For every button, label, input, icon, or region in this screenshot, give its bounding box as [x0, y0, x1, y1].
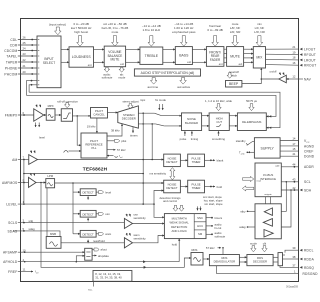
wire afhold branch into sample hold: [76, 256, 84, 262]
wire tap vertical to level line: [142, 113, 144, 204]
svg-text:usn: usn: [105, 212, 110, 216]
svg-text:INTERFACE: INTERFACE: [260, 177, 276, 181]
svg-text:LFOUT: LFOUT: [304, 48, 316, 52]
svg-text:39: 39: [292, 246, 296, 250]
svg-text:RROUT: RROUT: [304, 64, 316, 68]
level arrows below fm amp: [35, 123, 37, 128]
wire bass to fader R: [192, 61, 206, 63]
svg-text:25: 25: [23, 41, 27, 45]
feedback loop into input select upper: [27, 81, 38, 96]
svg-text:RFOUT: RFOUT: [304, 53, 316, 57]
svg-text:SDA: SDA: [304, 188, 312, 192]
logic output timers: [206, 217, 213, 219]
rolloff correction box: [61, 109, 72, 122]
svg-text:wam: wam: [105, 232, 112, 236]
svg-text:11: 11: [23, 268, 26, 272]
noise detect 2 box: [164, 180, 181, 193]
svg-text:PHCOM: PHCOM: [4, 72, 17, 76]
svg-text:hold: hold: [217, 185, 223, 189]
svg-text:DECODER: DECODER: [122, 117, 136, 121]
svg-text:on/off: on/off: [270, 70, 277, 74]
pin RFOUT: [292, 50, 316, 57]
svg-text:outgate: outgate: [264, 193, 272, 196]
wire rds filter to demod: [203, 258, 209, 260]
wire volume to treble L: [126, 48, 140, 50]
svg-text:ADDR: ADDR: [304, 165, 314, 169]
wire test into logic bottom: [178, 239, 180, 262]
svg-text:CDR: CDR: [10, 43, 18, 47]
hollow arrow into rolloff box: [65, 103, 70, 108]
am input amp: [29, 155, 38, 165]
svg-text:1, 1.2 to 10 kHz, wide: 1, 1.2 to 10 kHz, wide: [205, 99, 232, 103]
svg-text:38 kHz: 38 kHz: [111, 128, 120, 132]
wire input select to loudness L: [61, 48, 69, 50]
pin AM: [12, 156, 29, 162]
annotation below noise blanker: [184, 131, 186, 136]
pin RDSGND: [217, 266, 319, 276]
loudness block: [69, 47, 94, 67]
detect 1 box: [80, 189, 96, 196]
nc label: [93, 281, 95, 286]
hollow arrow into loudness: [77, 36, 84, 47]
svg-text:ms sensitivity: ms sensitivity: [149, 172, 166, 176]
svg-text:LROUT: LROUT: [304, 58, 316, 62]
svg-text:TREBLE: TREBLE: [145, 54, 159, 58]
wire 38 kHz pll to stereo decoder: [107, 124, 122, 136]
svg-text:SUPPLY: SUPPLY: [261, 146, 275, 150]
svg-text:HCC: HCC: [197, 224, 203, 228]
wire timers below stereo decoder: [132, 127, 134, 133]
svg-text:standby: standby: [236, 139, 246, 143]
hollow arrow into mix: [256, 36, 263, 47]
wire input select to loudness R: [61, 61, 69, 63]
pin TAPEL: [6, 52, 37, 58]
svg-text:57 kHz: 57 kHz: [117, 148, 126, 152]
wire fm amp to mpx filter: [44, 114, 47, 116]
annotation below volume: softmute: [104, 67, 109, 72]
pin FMMPX: [5, 111, 34, 117]
svg-text:22: 22: [23, 58, 27, 62]
svg-text:MUTE: MUTE: [110, 58, 119, 62]
sensitivity double arrow: [170, 168, 175, 180]
node am junction 2: [151, 159, 153, 161]
wires high cut to de-emphasis: [229, 115, 237, 117]
pin SCL: [281, 178, 311, 185]
node mpx junction: [76, 115, 78, 117]
svg-text:FREF: FREF: [8, 270, 17, 274]
svg-text:RDDA: RDDA: [304, 257, 315, 261]
mute block: [227, 47, 244, 67]
svg-text:sm start, slope: sm start, slope: [204, 202, 223, 206]
svg-text:pilot: pilot: [121, 139, 126, 143]
hollow arrow into volume: [112, 36, 119, 47]
svg-text:AFHOLD: AFHOLD: [3, 260, 18, 264]
svg-text:pulse: pulse: [180, 137, 187, 141]
af sample hold box: [85, 248, 92, 260]
svg-text:SDAG: SDAG: [7, 229, 17, 233]
svg-text:LEVEL: LEVEL: [6, 203, 17, 207]
sensitivity arrows comparator 2: [125, 233, 128, 236]
svg-text:SM: SM: [198, 232, 203, 236]
svg-text:CDL: CDL: [10, 38, 17, 42]
wires fader to mute 4 lines: [224, 48, 227, 50]
pin SDAG: [7, 227, 35, 233]
svg-text:stereo adjust: stereo adjust: [122, 99, 138, 103]
svg-text:CUT: CUT: [216, 120, 222, 124]
gain arrows above am amp: [30, 150, 33, 153]
pin CDR: [10, 41, 37, 47]
svg-text:AGND: AGND: [304, 144, 315, 148]
svg-text:hi-cut: hi-cut: [215, 226, 222, 230]
pll input fref: [107, 155, 114, 157]
svg-text:DETECT: DETECT: [82, 191, 93, 195]
svg-text:ext: ext: [88, 63, 92, 67]
node am junction 1: [142, 159, 144, 161]
detect 1 output level: [96, 191, 98, 193]
hollow arrow into mute: [232, 36, 239, 47]
node level junctions: [23, 203, 25, 205]
svg-text:BLANKER: BLANKER: [185, 121, 198, 125]
annotation below volume: ab mode: [119, 67, 124, 72]
supply block: [254, 138, 280, 158]
wire mpx tap to rds filter: [41, 183, 191, 268]
feedback loop into input select lower: [29, 85, 37, 92]
svg-text:BEEP: BEEP: [229, 82, 239, 86]
wire nd2 to pt2: [180, 186, 187, 188]
svg-text:19 kHz: 19 kHz: [87, 125, 96, 129]
hollow arrow into de-emphasis: [249, 104, 254, 111]
pin FREF: [8, 268, 39, 275]
svg-text:SCLS: SCLS: [8, 221, 18, 225]
control arrows onto switch: [158, 104, 160, 110]
svg-text:MUTE: MUTE: [230, 55, 240, 59]
wire level branch down into multipath logic: [154, 204, 164, 217]
amfmos amp: [29, 177, 37, 187]
pin DGND: [280, 152, 315, 159]
svg-text:level: level: [39, 136, 45, 140]
svg-text:aut active: aut active: [177, 85, 190, 89]
svg-text:RDS: RDS: [192, 248, 198, 252]
svg-text:read/hold: read/hold: [93, 239, 105, 243]
switch blade upper: [154, 113, 161, 116]
wire bass to fader L: [192, 48, 206, 50]
wire lpm down to msb filter: [46, 188, 48, 237]
test amp box: [255, 204, 281, 239]
svg-text:addr: addr: [275, 165, 280, 168]
svg-text:afupdate: afupdate: [98, 254, 109, 258]
fm input amp: [34, 109, 44, 122]
svg-text:57 kHz: 57 kHz: [206, 246, 215, 250]
svg-text:44: 44: [292, 163, 296, 167]
svg-text:RDCL: RDCL: [304, 249, 314, 253]
wire nav amp to mix: [261, 68, 279, 79]
wire into detect 2: [73, 213, 80, 215]
svg-text:DEMODULATOR: DEMODULATOR: [214, 260, 236, 264]
wire beep to mix: [242, 79, 261, 84]
pt2 output hold: [205, 186, 216, 188]
svg-text:TAPEL: TAPEL: [6, 54, 17, 58]
svg-text:15: 15: [292, 147, 296, 151]
wire lpm to noise detect 2: [55, 182, 164, 184]
comparator 1: [124, 218, 132, 228]
node taps on decoder outputs: [142, 112, 144, 114]
svg-text:sdag: sdag: [29, 227, 36, 231]
rds demodulator box: [209, 255, 239, 266]
svg-text:L/R, NR: L/R, NR: [230, 30, 242, 34]
svg-text:AMFMOS: AMFMOS: [2, 181, 18, 185]
svg-text:hold: hold: [172, 242, 178, 246]
svg-text:21: 21: [23, 64, 27, 68]
svg-text:19: 19: [292, 50, 296, 54]
pin RDDA: [283, 255, 315, 262]
mpx filter box: [46, 104, 55, 120]
svg-text:RDSGND: RDSGND: [303, 272, 319, 276]
svg-text:CANCEL: CANCEL: [93, 113, 105, 117]
svg-text:20: 20: [23, 70, 27, 74]
wire scls to comparator 1: [18, 222, 125, 224]
svg-text:AM: AM: [12, 158, 17, 162]
i2c bus interface box: [255, 163, 281, 197]
svg-text:41: 41: [292, 152, 296, 156]
svg-text:aut time: aut time: [147, 85, 158, 89]
svg-text:38: 38: [292, 255, 296, 259]
svg-text:mode: mode: [250, 241, 257, 245]
svg-text:SELECT: SELECT: [43, 61, 55, 65]
logic output hicut: [206, 225, 213, 227]
svg-text:ext: ext: [187, 60, 191, 64]
msb filter box: [46, 232, 61, 248]
wire stby into test box: [247, 210, 255, 212]
svg-text:softmute: softmute: [102, 76, 113, 80]
wire diag into test box: [247, 226, 255, 228]
svg-text:n.c.: n.c.: [88, 288, 93, 292]
svg-text:DECODER: DECODER: [253, 260, 267, 264]
wire sdag to comparator 2: [13, 231, 124, 243]
svg-text:and control: and control: [163, 199, 177, 203]
hollow arrows into logic: [173, 205, 178, 211]
svg-text:clk: clk: [263, 241, 267, 245]
pin LROUT: [292, 56, 316, 63]
svg-text:stby: stby: [240, 209, 246, 213]
svg-text:DETECT: DETECT: [166, 186, 177, 190]
svg-text:23: 23: [23, 52, 27, 56]
annotation readthold: [87, 240, 89, 243]
rds filter box: [191, 248, 203, 265]
wire decoder to buffer: [273, 256, 278, 258]
stereo decoder trapezoid: [118, 106, 139, 128]
svg-text:LOUDNESS: LOUDNESS: [72, 55, 92, 59]
svg-text:50/75 µs: 50/75 µs: [246, 99, 257, 103]
svg-text:26: 26: [23, 36, 27, 40]
gain arrows above amfmos amp: [30, 173, 33, 176]
rds buffer box: [278, 253, 283, 266]
bass block: [175, 47, 192, 65]
pin LFOUT: [292, 45, 315, 52]
pin AFHOLD: [3, 258, 179, 264]
de-emphasis right stubs to wrap bus: [269, 115, 272, 117]
svg-text:MPX: MPX: [48, 104, 54, 108]
switch blade lower: [156, 124, 165, 126]
svg-text:1.8 to 10 kHz: 1.8 to 10 kHz: [142, 28, 160, 32]
hollow arrow into treble: [148, 36, 155, 47]
wire volume to treble R: [126, 61, 140, 63]
hollow arrow below bar right: [180, 78, 187, 85]
pin AGND: [280, 142, 314, 149]
svg-text:TIMER: TIMER: [192, 160, 201, 164]
nav buffer amp: [279, 75, 287, 83]
pin ADDR: [281, 163, 314, 170]
wire test box to scl: [281, 182, 286, 212]
noise detect 1 box: [164, 154, 181, 167]
svg-text:CDCOM: CDCOM: [4, 49, 17, 53]
pin AFSAMP: [3, 248, 85, 254]
svg-text:MSB: MSB: [50, 232, 56, 236]
svg-text:DETECT: DETECT: [82, 232, 93, 236]
hollow arrow into fader: [212, 36, 219, 47]
svg-text:PLL: PLL: [92, 146, 97, 150]
svg-text:softmute: softmute: [215, 234, 226, 238]
svg-text:emphasized pass: emphasized pass: [172, 30, 196, 34]
svg-text:DETECT: DETECT: [166, 160, 177, 164]
pin NAV: [292, 75, 311, 82]
wire level branch up: [23, 160, 25, 205]
wire nav pin to amp: [286, 78, 298, 80]
detect 2 output usn: [96, 213, 98, 215]
svg-text:L/R, NR: L/R, NR: [254, 30, 266, 34]
wire nd1 to pt1: [180, 159, 187, 161]
af output 1: [92, 249, 94, 251]
wire pilot cancel to stereo decoder: [108, 112, 118, 114]
pin AMFMOS: [2, 179, 28, 185]
svg-text:srlg: srlg: [29, 219, 34, 223]
front rear fader block: [206, 47, 224, 67]
chip outer border: [21, 19, 299, 282]
svg-text:LPM: LPM: [47, 174, 53, 178]
pilot reference pll box: [81, 133, 107, 158]
pin SCLS: [8, 219, 33, 225]
sensitivity arrows comparator 1: [125, 214, 128, 217]
svg-text:AND LOGIC: AND LOGIC: [172, 229, 187, 233]
svg-text:read: read: [257, 180, 262, 183]
wires stereo decoder outputs to switch: [138, 112, 154, 114]
svg-text:SCL: SCL: [304, 180, 311, 184]
high cut box: [209, 113, 229, 131]
input select internal ticks: [38, 40, 40, 85]
pulse timer 2 box: [188, 180, 205, 193]
wires noise blanker to high cut: [202, 115, 210, 117]
pin CDCOM: [4, 47, 37, 53]
svg-text:amb: amb: [241, 154, 245, 156]
svg-text:DE-EMPHASIS: DE-EMPHASIS: [242, 120, 261, 124]
treble block: [140, 47, 163, 64]
wire mpx filter to rolloff: [55, 114, 61, 116]
svg-text:mpx: mpx: [140, 98, 146, 102]
svg-text:ext: ext: [239, 62, 243, 66]
svg-text:RDSQ: RDSQ: [304, 266, 314, 270]
svg-text:AUDIO STEP INTERPOLATION (all): AUDIO STEP INTERPOLATION (all): [141, 71, 195, 75]
svg-text:mode: mode: [118, 76, 125, 80]
svg-text:adag: adag: [239, 225, 246, 229]
detect 3 output wam: [96, 233, 98, 235]
wire level branch up into noise detect 2: [154, 191, 164, 205]
pulse timer 1 box: [188, 154, 205, 167]
pin VCC: [280, 136, 310, 143]
mix block: [253, 47, 265, 68]
wires mix to output pins: [266, 48, 299, 50]
svg-text:(input select): (input select): [49, 22, 66, 26]
svg-text:smoothing: smoothing: [212, 137, 225, 141]
svg-text:timers: timers: [130, 133, 138, 137]
svg-text:DETECT: DETECT: [82, 212, 93, 216]
arrow below detect 1: [87, 196, 89, 199]
pll output pilot: [107, 140, 115, 142]
pin SDA: [281, 186, 312, 193]
pin LEVEL: [6, 200, 154, 206]
fref squiggle into pll: [64, 150, 69, 152]
svg-text:TEF6862H: TEF6862H: [83, 167, 108, 173]
wire loudness to volume R: [94, 61, 105, 63]
svg-text:BASS: BASS: [179, 53, 189, 57]
hollow bus arrows left of i2c: [242, 176, 253, 181]
af output 2: [92, 255, 96, 257]
nc box: [93, 271, 132, 282]
svg-text:sensitivity: sensitivity: [134, 216, 147, 220]
node lpm junction: [72, 182, 74, 184]
svg-text:ext: ext: [219, 62, 223, 66]
wire i2c to test box: [265, 197, 267, 204]
svg-text:TIMER: TIMER: [192, 186, 201, 190]
svg-text:timing: timing: [191, 137, 199, 141]
svg-text:TAPER: TAPER: [6, 60, 18, 64]
wire comparator 1 to logic: [133, 223, 165, 225]
svg-text:FMMPX: FMMPX: [5, 113, 18, 117]
lpm filter box: [46, 174, 55, 188]
feedback bus upper: [27, 95, 277, 116]
wire am amp to noise detect 1: [38, 159, 164, 161]
hollow arrow into stereo decoder: [128, 104, 133, 109]
wire treble to bass R: [163, 61, 176, 63]
wires switch to noise blanker: [162, 115, 182, 117]
hollow arrow into bass: [180, 36, 187, 47]
pin PHONE: [5, 64, 37, 70]
beep block: [226, 81, 242, 88]
svg-text:level: level: [105, 190, 111, 194]
pilot cancel box: [91, 108, 108, 119]
svg-text:blank: blank: [217, 159, 224, 163]
svg-text:ext: ext: [120, 62, 124, 66]
input select block U1: [37, 36, 61, 88]
pin RROUT: [292, 61, 316, 68]
svg-text:31, 33, 34, 35, 38, 40: 31, 33, 34, 35, 38, 40: [95, 276, 122, 280]
svg-text:mute: mute: [112, 30, 119, 34]
pin CREF: [280, 147, 313, 154]
pin RDCL: [283, 246, 314, 255]
hollow arrow into beep: [227, 73, 232, 78]
svg-text:18: 18: [292, 56, 296, 60]
pin TAPER: [6, 58, 37, 64]
wire loudness to volume L: [94, 48, 105, 50]
svg-text:0 to −99 dB: 0 to −99 dB: [207, 28, 222, 32]
wire into detect 1: [73, 191, 80, 193]
wire am up to switch: [151, 124, 153, 160]
svg-text:14: 14: [292, 136, 296, 140]
gain arrows above fm amp: [35, 105, 38, 108]
detect 3 box: [80, 230, 96, 237]
svg-text:NAV: NAV: [304, 77, 312, 81]
wire amfmos amp to lpm filter: [36, 182, 46, 184]
svg-text:sensitivity: sensitivity: [134, 236, 147, 240]
svg-text:CREF: CREF: [304, 150, 314, 154]
